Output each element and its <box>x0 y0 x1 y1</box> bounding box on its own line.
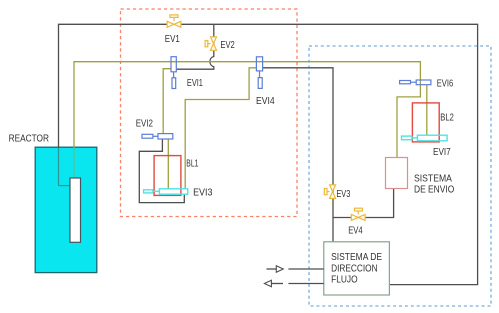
svg-text:EVI7: EVI7 <box>433 147 451 158</box>
svg-text:EVI4: EVI4 <box>256 96 275 107</box>
svg-text:EV2: EV2 <box>220 40 235 51</box>
solenoid valve EVI1 <box>171 57 176 89</box>
arrow into direccion box <box>267 268 277 270</box>
svg-text:SISTEMA DE: SISTEMA DE <box>331 252 382 263</box>
valve EV3 <box>324 185 335 199</box>
reactor vessel <box>35 147 97 272</box>
svg-text:BL1: BL1 <box>186 158 198 169</box>
solenoid valve EVI6 <box>400 80 431 85</box>
valve EV2 <box>205 37 216 50</box>
svg-text:EV3: EV3 <box>336 189 350 200</box>
svg-text:DE ENVIO: DE ENVIO <box>414 184 454 195</box>
reactor inner slot <box>70 178 81 242</box>
svg-text:EVI1: EVI1 <box>187 78 203 89</box>
svg-text:FLUJO: FLUJO <box>331 274 358 285</box>
wire: main black loop (top run, right run, into direccion box) <box>59 24 478 284</box>
wire: olive EVI6 to EVI7 through BL2 <box>426 85 428 136</box>
valve EV1 <box>167 15 181 27</box>
svg-text:SISTEMA: SISTEMA <box>414 174 452 185</box>
wire: EVI4 to EV3 run <box>263 68 333 242</box>
svg-text:EV1: EV1 <box>165 34 180 45</box>
solenoid valve EVI2 <box>142 134 173 139</box>
arrow out of direccion box <box>271 283 283 285</box>
wire: black into reactor slot <box>59 185 71 187</box>
vessel BL1 <box>154 156 181 196</box>
wire: olive EVI2 to EVI3 <box>167 139 169 189</box>
wire: olive branch EVI4 left to EVI3 <box>185 68 256 189</box>
valve EV4 <box>351 208 365 220</box>
wire: EV2 branch with hop over olive line <box>176 24 214 69</box>
svg-text:EVI6: EVI6 <box>437 78 454 89</box>
solenoid valve EVI7 <box>402 135 448 141</box>
svg-text:REACTOR: REACTOR <box>9 134 49 145</box>
svg-text:EVI3: EVI3 <box>193 188 213 199</box>
vessel BL2 <box>412 103 439 142</box>
dashed blue boundary box <box>309 46 491 306</box>
wire: EV4 branch to envio box <box>333 189 394 218</box>
wire: EVI2 control frame to EVI3 <box>139 139 184 203</box>
svg-text:EVI2: EVI2 <box>136 118 154 129</box>
svg-text:EV4: EV4 <box>348 226 363 237</box>
solenoid valve EVI3 <box>144 189 188 194</box>
dashed orange boundary box <box>121 9 298 217</box>
svg-text:BL2: BL2 <box>440 112 454 123</box>
solenoid valve EVI4 <box>256 57 262 89</box>
wire: main olive run reactor to EVI6 to envio box <box>74 62 420 180</box>
reactor fill overlay tinting wires <box>36 148 96 272</box>
wire: olive branch to EVI2 <box>163 69 171 134</box>
sistema de envio box <box>386 158 408 189</box>
svg-text:DIRECCION: DIRECCION <box>331 263 378 274</box>
sistema de direccion flujo box <box>324 242 390 295</box>
